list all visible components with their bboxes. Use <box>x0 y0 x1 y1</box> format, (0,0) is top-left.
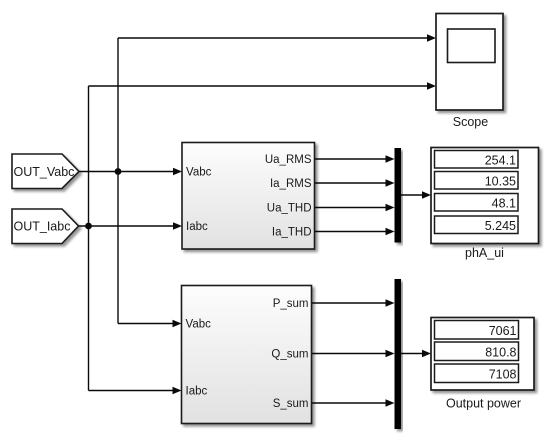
wire mux2 to Output power display <box>401 350 431 358</box>
svg-text:Ua_THD: Ua_THD <box>267 203 312 215</box>
display Output power label <box>446 397 521 411</box>
display Output power row 3 (value 7108) <box>435 364 519 383</box>
wire Vabc net: vertical trunk <box>117 38 119 324</box>
svg-text:P_sum: P_sum <box>273 298 309 310</box>
svg-text:S_sum: S_sum <box>273 398 309 410</box>
wire Iabc net to subsystem2 Iabc input <box>89 387 182 395</box>
wire Ua_RMS to mux1 <box>315 155 395 163</box>
svg-text:Output power: Output power <box>446 397 521 411</box>
subsystem U2 input port label Vabc <box>186 319 212 331</box>
wire OUT_Vabc to subsystem1 Vabc input <box>79 168 182 176</box>
display phA_ui row 2 (value 10.35) <box>435 172 519 190</box>
junction dot Iabc net <box>85 223 92 230</box>
subsystem U1 input port label Vabc <box>186 167 212 179</box>
junction dot Vabc net <box>115 168 122 175</box>
display phA_ui row 4 (value 5.245) <box>435 216 519 234</box>
svg-text:7108: 7108 <box>489 367 517 381</box>
svg-text:Ua_RMS: Ua_RMS <box>265 154 312 166</box>
svg-text:Vabc: Vabc <box>186 167 212 179</box>
svg-text:Ia_THD: Ia_THD <box>272 227 312 239</box>
from tag OUT_Vabc <box>12 154 79 189</box>
wire Iabc net: scope branch horizontal <box>89 82 437 90</box>
wire Vabc net to subsystem2 Vabc input <box>118 320 182 328</box>
display block phA_ui <box>431 148 539 244</box>
scope label <box>453 115 488 129</box>
subsystem U2 output port label P_sum <box>273 298 309 310</box>
svg-text:Scope: Scope <box>453 115 488 129</box>
from tag OUT_Iabc <box>12 209 79 244</box>
display Output power row 1 (value 7061) <box>435 321 519 340</box>
display phA_ui label <box>465 246 504 260</box>
subsystem U2 (power sums) <box>182 286 312 424</box>
wire Ia_THD to mux1 <box>315 228 395 236</box>
svg-text:Vabc: Vabc <box>186 319 212 331</box>
display phA_ui row 1 (value 254.1) <box>435 151 519 169</box>
svg-text:5.245: 5.245 <box>485 219 516 233</box>
wire Ua_THD to mux1 <box>315 204 395 212</box>
mux M1 <box>395 148 402 243</box>
wire Q_sum to mux2 <box>312 350 395 358</box>
wire S_sum to mux2 <box>312 399 395 407</box>
subsystem U1 input port label Iabc <box>186 221 208 233</box>
subsystem U2 output port label Q_sum <box>271 349 308 361</box>
svg-text:254.1: 254.1 <box>485 153 516 167</box>
svg-text:Q_sum: Q_sum <box>271 349 308 361</box>
svg-text:48.1: 48.1 <box>492 196 516 210</box>
svg-text:Ia_RMS: Ia_RMS <box>270 178 312 190</box>
svg-text:OUT_Vabc: OUT_Vabc <box>14 165 75 179</box>
wire Vabc net: scope branch horizontal <box>118 34 436 42</box>
display phA_ui row 3 (value 48.1) <box>435 194 519 212</box>
subsystem U2 input port label Iabc <box>186 386 208 398</box>
display block Output power <box>431 318 534 391</box>
svg-text:OUT_Iabc: OUT_Iabc <box>14 220 71 234</box>
svg-text:phA_ui: phA_ui <box>465 246 504 260</box>
mux M2 <box>395 279 402 429</box>
wire mux1 to phA_ui display <box>401 191 431 199</box>
subsystem U2 output port label S_sum <box>273 398 309 410</box>
svg-text:810.8: 810.8 <box>485 345 516 359</box>
subsystem U1 output port label Ua_RMS <box>265 154 312 166</box>
svg-text:7061: 7061 <box>489 324 517 338</box>
wire OUT_Iabc to subsystem1 Iabc input <box>79 222 183 230</box>
subsystem U1 output port label Ia_THD <box>272 227 312 239</box>
svg-text:Iabc: Iabc <box>186 386 208 398</box>
display Output power row 2 (value 810.8) <box>435 342 519 361</box>
svg-text:10.35: 10.35 <box>485 174 516 188</box>
subsystem U1 output port label Ua_THD <box>267 203 312 215</box>
subsystem U1 output port label Ia_RMS <box>270 178 312 190</box>
svg-text:Iabc: Iabc <box>186 221 208 233</box>
wire Iabc net: vertical trunk <box>88 86 90 391</box>
scope block <box>436 14 503 111</box>
wire P_sum to mux2 <box>312 299 395 307</box>
subsystem U1 (measurements RMS/THD) <box>182 143 315 250</box>
wire Ia_RMS to mux1 <box>315 179 395 187</box>
